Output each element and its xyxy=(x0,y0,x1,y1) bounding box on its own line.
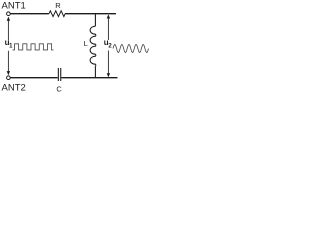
u1 arrowhead up xyxy=(7,17,10,21)
svg-text:ANT1: ANT1 xyxy=(2,0,26,11)
terminal ANT1 xyxy=(7,12,11,16)
wire top right of resistor xyxy=(65,13,116,15)
waveform: square wave of u1 xyxy=(13,44,54,50)
inductor L: top lead xyxy=(94,14,96,27)
wire: u1 arrow shaft upper segment xyxy=(7,18,9,41)
svg-text:C: C xyxy=(56,84,62,93)
resistor R xyxy=(49,11,65,17)
wire: u2 arrow shaft upper segment xyxy=(107,16,109,41)
terminal ANT2 xyxy=(7,76,11,80)
inductor L: bottom lead xyxy=(94,66,96,78)
u2 arrowhead down xyxy=(107,73,110,77)
wire: u2 arrow shaft lower segment xyxy=(107,51,109,77)
background xyxy=(0,0,150,94)
svg-text:L: L xyxy=(84,39,88,48)
svg-text:ANT2: ANT2 xyxy=(2,83,26,94)
waveform: sine wave of u2 xyxy=(113,45,149,53)
wire bottom left: ANT2 to capacitor xyxy=(10,77,58,79)
wire top: ANT1 to right end xyxy=(10,13,49,15)
u1 arrowhead down xyxy=(7,71,10,75)
u2 arrowhead up xyxy=(107,14,110,18)
inductor L coil xyxy=(90,26,96,66)
svg-text:R: R xyxy=(55,1,61,10)
wire bottom right: capacitor to right end xyxy=(61,77,117,79)
wire: u1 arrow shaft lower segment xyxy=(7,51,9,75)
capacitor C plates xyxy=(57,68,59,81)
